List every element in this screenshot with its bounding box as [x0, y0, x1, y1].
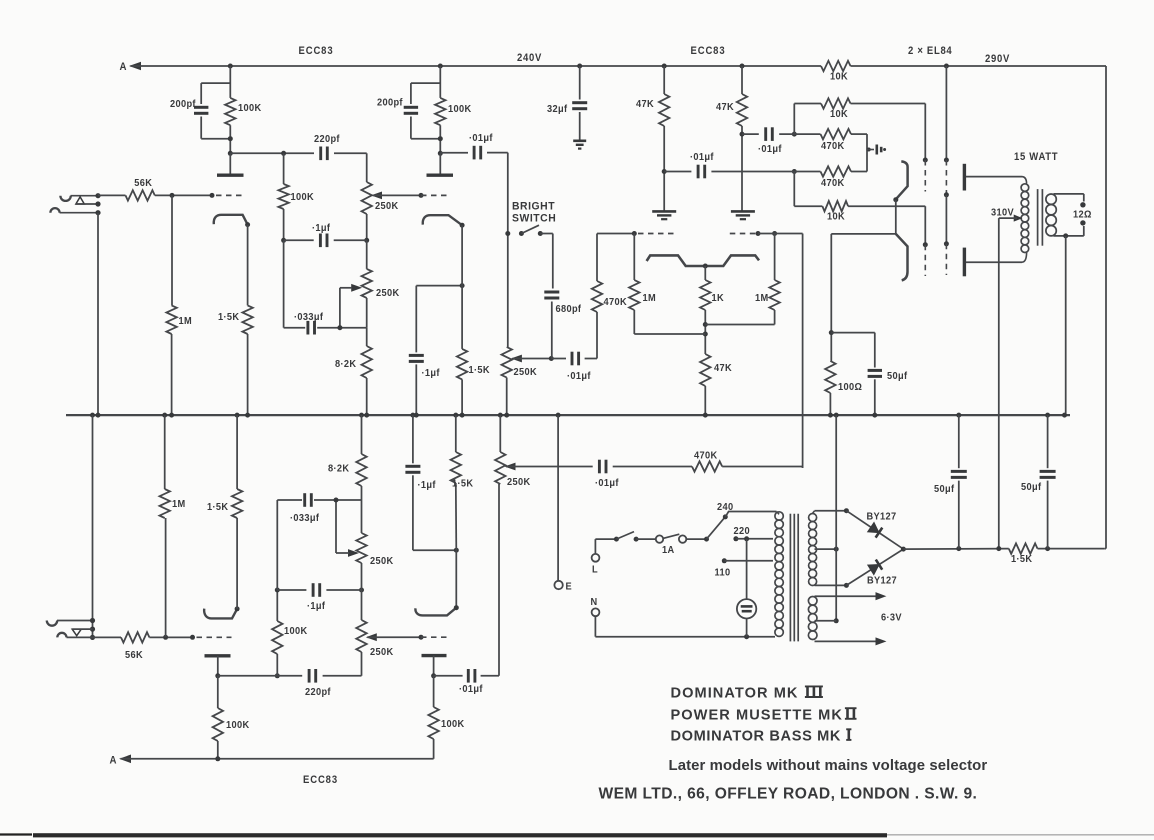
svg-text:47K: 47K: [714, 363, 732, 375]
svg-text:100K: 100K: [226, 720, 250, 732]
svg-text:240V: 240V: [517, 53, 542, 65]
svg-text:1·5K: 1·5K: [1011, 554, 1033, 566]
svg-text:10K: 10K: [827, 211, 845, 223]
svg-text:6·3V: 6·3V: [881, 612, 902, 624]
svg-text:100K: 100K: [284, 626, 308, 638]
svg-text:1·5K: 1·5K: [469, 365, 491, 377]
svg-text:·01μf: ·01μf: [459, 684, 483, 696]
svg-text:100K: 100K: [238, 103, 262, 115]
svg-text:1·5K: 1·5K: [207, 502, 229, 514]
svg-text:ECC83: ECC83: [691, 46, 726, 58]
svg-text:·01μf: ·01μf: [469, 133, 493, 145]
svg-text:DOMINATOR BASS MK: DOMINATOR BASS MK: [671, 729, 842, 745]
svg-text:50μf: 50μf: [934, 484, 955, 496]
svg-text:12Ω: 12Ω: [1073, 209, 1092, 221]
svg-text:N: N: [591, 597, 598, 609]
svg-text:SWITCH: SWITCH: [512, 212, 556, 224]
svg-text:1·5K: 1·5K: [218, 312, 240, 324]
svg-text:100K: 100K: [441, 719, 465, 731]
svg-text:470K: 470K: [821, 141, 845, 153]
svg-text:1M: 1M: [179, 316, 193, 328]
svg-text:·033μf: ·033μf: [290, 513, 320, 525]
svg-text:·1μf: ·1μf: [422, 368, 441, 380]
svg-text:470K: 470K: [604, 297, 628, 309]
svg-text:250K: 250K: [370, 556, 394, 568]
svg-text:470K: 470K: [694, 450, 718, 462]
svg-text:L: L: [592, 564, 598, 576]
svg-text:50μf: 50μf: [887, 371, 908, 383]
svg-text:680pf: 680pf: [556, 304, 582, 316]
svg-text:200pf: 200pf: [170, 99, 196, 111]
svg-text:220pf: 220pf: [314, 134, 340, 146]
svg-text:47K: 47K: [636, 99, 654, 111]
svg-text:310V: 310V: [991, 207, 1014, 219]
svg-text:·01μf: ·01μf: [595, 478, 619, 490]
svg-text:56K: 56K: [134, 178, 152, 190]
svg-text:220: 220: [734, 526, 751, 538]
svg-text:100Ω: 100Ω: [838, 382, 862, 394]
svg-text:240: 240: [717, 502, 734, 514]
svg-text:8·2K: 8·2K: [335, 359, 357, 371]
svg-text:E: E: [566, 581, 573, 593]
svg-text:100K: 100K: [291, 192, 315, 204]
svg-text:100K: 100K: [448, 104, 472, 116]
svg-text:BY127: BY127: [867, 511, 897, 523]
svg-text:250K: 250K: [514, 367, 538, 379]
svg-text:1M: 1M: [172, 499, 186, 511]
svg-text:47K: 47K: [716, 102, 734, 114]
svg-text:56K: 56K: [125, 650, 143, 662]
svg-text:DOMINATOR MK: DOMINATOR MK: [671, 686, 799, 702]
svg-text:250K: 250K: [370, 647, 394, 659]
svg-text:250K: 250K: [507, 477, 531, 489]
svg-text:ECC83: ECC83: [303, 775, 338, 787]
svg-text:BY127: BY127: [867, 575, 897, 587]
svg-text:·01μf: ·01μf: [690, 152, 714, 164]
svg-text:1A: 1A: [662, 545, 675, 557]
svg-text:1M: 1M: [643, 293, 657, 305]
svg-text:220pf: 220pf: [305, 687, 331, 699]
svg-text:·1μf: ·1μf: [418, 480, 437, 492]
svg-text:250K: 250K: [375, 201, 399, 213]
svg-text:200pf: 200pf: [377, 97, 403, 109]
svg-text:·1μf: ·1μf: [307, 601, 326, 613]
svg-text:A: A: [120, 62, 127, 74]
svg-text:·01μf: ·01μf: [758, 144, 782, 156]
svg-text:BRIGHT: BRIGHT: [512, 200, 555, 212]
svg-text:10K: 10K: [830, 71, 848, 83]
svg-text:32μf: 32μf: [547, 104, 568, 116]
svg-text:110: 110: [715, 567, 731, 579]
svg-text:250K: 250K: [376, 288, 400, 300]
svg-text:·033μf: ·033μf: [294, 312, 324, 324]
svg-text:10K: 10K: [830, 109, 848, 121]
svg-text:ECC83: ECC83: [299, 46, 334, 58]
svg-text:15 WATT: 15 WATT: [1014, 152, 1058, 164]
svg-text:1M: 1M: [755, 293, 769, 305]
svg-text:8·2K: 8·2K: [328, 463, 350, 475]
svg-text:470K: 470K: [821, 178, 845, 190]
svg-text:1K: 1K: [712, 293, 725, 305]
svg-text:1·5K: 1·5K: [452, 478, 474, 490]
svg-text:290V: 290V: [985, 54, 1010, 66]
svg-text:POWER MUSETTE MK: POWER MUSETTE MK: [671, 707, 843, 723]
svg-text:Later models without mains vol: Later models without mains voltage selec…: [669, 758, 988, 774]
svg-text:·1μf: ·1μf: [312, 223, 331, 235]
svg-text:WEM LTD., 66, OFFLEY ROAD,: WEM LTD., 66, OFFLEY ROAD, LONDON . S.W.…: [599, 786, 978, 803]
svg-text:50μf: 50μf: [1021, 482, 1042, 494]
svg-text:·01μf: ·01μf: [567, 371, 591, 383]
svg-text:2 × EL84: 2 × EL84: [908, 46, 952, 58]
svg-text:A: A: [110, 755, 117, 767]
